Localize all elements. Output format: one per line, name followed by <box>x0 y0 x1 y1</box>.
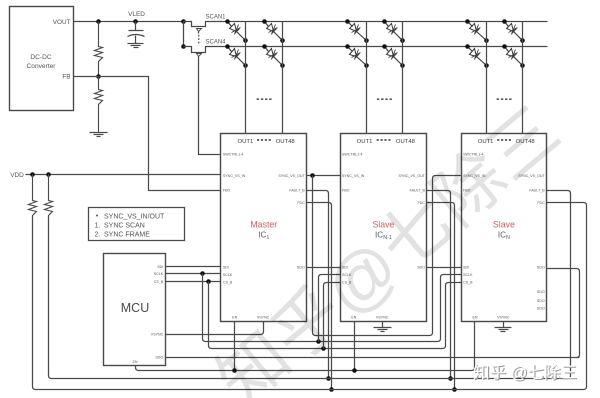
ellipsis between LED columns <box>497 98 499 100</box>
ground below C1 <box>128 43 144 45</box>
wire slave IC_N-1 SDO to slave IC_N SDI <box>427 267 462 269</box>
node VDD R4 tap <box>46 172 51 177</box>
svg-text:SCLK: SCLK <box>463 273 473 277</box>
slave IC U4 box <box>462 134 547 322</box>
wire EN bus <box>139 322 475 371</box>
wire row SCAN4 <box>212 46 548 48</box>
wire SCLK riser to slave IC_N-1 <box>319 275 341 342</box>
svg-text:VLED: VLED <box>128 11 145 18</box>
svg-text:Slave: Slave <box>493 219 515 229</box>
svg-text:EN: EN <box>133 360 138 364</box>
wire SDO return line <box>166 357 580 359</box>
svg-text:MCU: MCU <box>121 301 149 315</box>
wire R3 to FDC bus <box>33 217 36 390</box>
svg-text:2.: 2. <box>95 232 101 239</box>
svg-text:SYNC_VS_OUT: SYNC_VS_OUT <box>278 174 305 178</box>
node cathode D8 <box>400 63 405 68</box>
node anode D11 <box>502 19 507 24</box>
wire CS_B bus <box>212 283 462 349</box>
svg-text:SCAN4: SCAN4 <box>205 40 226 46</box>
wire slave IC_N FAULT_B drop <box>547 191 571 379</box>
node anode D4 <box>262 44 267 49</box>
node anode D12 <box>502 44 507 49</box>
wire LED column 2 <box>282 22 284 134</box>
wire slave IC_N-1 EN drop <box>354 322 356 371</box>
wire master SYNC_VS_OUT to slave SYNC_VS_IN <box>307 175 341 177</box>
node anode D8 <box>382 44 387 49</box>
resistor R3 (pull-up) <box>29 175 37 217</box>
svg-text:DC-DC: DC-DC <box>30 54 51 61</box>
transistor Q1 (SCAN1 PFET) <box>184 22 212 27</box>
node cathode D4 <box>280 63 285 68</box>
svg-text:知乎 @七除三: 知乎 @七除三 <box>473 363 577 382</box>
wire CS_B drop to bus <box>209 282 212 349</box>
LED D11 (row1 col6) <box>505 22 509 27</box>
wire master FAULT_B drop <box>307 191 329 379</box>
node anode D2 <box>225 44 230 49</box>
slave IC U4 OUT ellipsis <box>497 139 499 141</box>
node anode D1 <box>225 19 230 24</box>
wire SCLK drop to bus <box>203 274 206 342</box>
wire FAULT_B bus <box>52 378 568 380</box>
transistor Q2 (SCAN4 PFET) <box>184 47 212 53</box>
node anode D7 <box>382 19 387 24</box>
wire VDD rail <box>26 174 221 176</box>
svg-text:OUT48: OUT48 <box>396 139 416 145</box>
svg-text:Converter: Converter <box>27 63 57 70</box>
wire Q2 gate to master SWCTRL <box>199 57 221 155</box>
wire LED column 3 <box>366 22 368 134</box>
LED D6 (row2 col3) <box>348 47 353 52</box>
resistor R2 (divider bottom) <box>95 77 103 133</box>
node anode D6 <box>345 44 350 49</box>
svg-text:SYNC_VS_IN/OUT: SYNC_VS_IN/OUT <box>104 214 165 221</box>
svg-text:1.: 1. <box>95 223 101 230</box>
decor zhihu watermark text <box>473 363 578 383</box>
LED D7 (row1 col4) <box>385 22 389 27</box>
svg-text:SDO: SDO <box>537 265 545 269</box>
node cathode D6 <box>364 63 369 68</box>
wire row SCAN1 <box>212 21 548 23</box>
svg-text:SDO: SDO <box>537 290 545 294</box>
node VLED-FET branch <box>181 19 186 24</box>
svg-text:SDI: SDI <box>463 265 469 269</box>
ground below R2 <box>90 132 108 134</box>
wire FDC bus <box>36 389 584 391</box>
svg-text:SWCTRL1-4: SWCTRL1-4 <box>223 152 243 156</box>
svg-text:EN: EN <box>473 315 478 319</box>
ground slave IC_N VSYNC <box>495 327 512 329</box>
node FET2 source <box>181 44 186 49</box>
node VDD R3 tap <box>30 172 35 177</box>
node master FDC on bus <box>329 387 334 392</box>
svg-text:VSYNC: VSYNC <box>151 332 164 336</box>
node cathode D5 <box>364 38 369 43</box>
wire slave IC_N SDO return <box>547 269 580 358</box>
svg-text:VDD: VDD <box>10 172 24 179</box>
resistor R4 (pull-up) <box>45 175 53 217</box>
svg-text:SDO: SDO <box>537 306 545 310</box>
slave IC U3 OUT ellipsis <box>377 139 379 141</box>
wire Q1 gate stub dashed <box>198 32 200 34</box>
node cathode D7 <box>400 38 405 43</box>
node anode D5 <box>345 19 350 24</box>
LED D10 (row2 col5) <box>468 47 473 52</box>
LED D3 (row1 col2) <box>265 22 269 27</box>
node FB junction <box>96 74 101 79</box>
node cathode D10 <box>484 63 489 68</box>
ground slave IC_N-1 VSYNC <box>374 327 392 329</box>
wire slave IC_N FDC drop <box>547 203 587 390</box>
svg-text:SDO: SDO <box>537 299 545 303</box>
node cathode D11 <box>520 38 525 43</box>
MCU box <box>104 254 166 366</box>
wire master EN drop <box>234 322 236 371</box>
resistor R1 (VOUT-FB divider top) <box>95 22 103 77</box>
LED D4 (row2 col2) <box>265 47 269 52</box>
svg-text:SDO: SDO <box>155 356 163 360</box>
wire master FDC drop <box>307 203 332 390</box>
wire MCU CS_B to master CS_B <box>166 281 221 283</box>
wire LED column 5 <box>486 22 488 134</box>
svg-text:FDC: FDC <box>537 201 545 205</box>
svg-text:FBO: FBO <box>223 189 231 193</box>
node cathode D1 <box>243 38 248 43</box>
node cathode D9 <box>484 38 489 43</box>
svg-text:SDO: SDO <box>297 265 305 269</box>
node slave IC_N-1 FDC on bus <box>452 387 457 392</box>
svg-text:OUT48: OUT48 <box>276 139 296 145</box>
node SYNC_VS_OUT branch <box>310 173 315 178</box>
node SCLK bus to slave IC_N-1 <box>316 339 321 344</box>
svg-text:FB: FB <box>62 73 70 80</box>
svg-text:VSYNC: VSYNC <box>497 315 510 319</box>
svg-text:OUT1: OUT1 <box>238 139 254 145</box>
wire MCU VSYNC to master VSYNC <box>166 322 264 335</box>
wire MCU EN to EN bus <box>136 366 139 371</box>
svg-text:FDC: FDC <box>297 201 305 205</box>
DC-DC converter U1 box <box>10 7 74 111</box>
svg-text:SCAN1: SCAN1 <box>205 14 226 20</box>
master IC U2 box <box>221 134 307 322</box>
node SCLK junction <box>200 271 205 276</box>
svg-text:SDI: SDI <box>157 265 163 269</box>
svg-text:FAULT_B: FAULT_B <box>289 189 305 193</box>
wire slave IC_N-1 FDC drop <box>427 203 455 390</box>
wire FET source rail <box>183 22 185 47</box>
svg-text:SYNC FRAME: SYNC FRAME <box>104 232 150 239</box>
note box <box>89 208 185 241</box>
LED D5 (row1 col3) <box>348 22 353 27</box>
wire MCU SCLK to master SCLK <box>166 273 221 275</box>
wire R4 to FAULT_B bus <box>49 217 52 379</box>
node anode D3 <box>262 19 267 24</box>
wire LED column 1 <box>245 22 247 134</box>
wire slave IC_N-1 FAULT_B drop <box>427 191 451 379</box>
svg-text:FAULT_B: FAULT_B <box>529 189 545 193</box>
svg-text:SYNC SCAN: SYNC SCAN <box>104 223 145 230</box>
LED D1 (row1 col1) <box>228 22 232 27</box>
node slave IC_N-1 EN on bus <box>352 368 357 373</box>
wire FB to DC-DC <box>74 76 99 78</box>
svg-text:SYNC_VS_IN: SYNC_VS_IN <box>342 174 365 178</box>
node CS_B junction <box>206 279 211 284</box>
node cathode D2 <box>243 63 248 68</box>
LED D12 (row2 col6) <box>505 47 509 52</box>
svg-text:FBO: FBO <box>342 189 350 193</box>
ellipsis between LED columns <box>377 98 379 100</box>
LED D8 (row2 col4) <box>385 47 389 52</box>
svg-text:VSYNC: VSYNC <box>376 315 389 319</box>
svg-text:OUT1: OUT1 <box>357 139 373 145</box>
svg-text:SDI: SDI <box>223 265 229 269</box>
node VLED <box>133 19 138 24</box>
svg-text:EN: EN <box>232 315 237 319</box>
node cathode D3 <box>280 38 285 43</box>
wire LED column 6 <box>522 22 524 134</box>
wire VOUT rail <box>74 21 184 23</box>
wire slave IC_N-1 VSYNC stub <box>382 322 384 328</box>
wire master SDO to slave IC_N-1 SDI <box>307 267 341 269</box>
svg-text:CS_B: CS_B <box>463 281 473 285</box>
svg-text:SCLK: SCLK <box>154 272 164 276</box>
node anode D10 <box>465 44 470 49</box>
wire SYNC_VS branch down-across-up <box>313 176 462 336</box>
svg-text:SWCTRL1-4: SWCTRL1-4 <box>342 152 362 156</box>
node master EN on bus <box>232 368 237 373</box>
wire SCLK bus <box>206 275 462 342</box>
wire slave IC_N VSYNC stub <box>503 322 505 328</box>
svg-text:SCLK: SCLK <box>223 273 233 277</box>
node anode D9 <box>465 19 470 24</box>
svg-text:Master: Master <box>250 219 277 229</box>
node VOUT junction <box>96 19 101 24</box>
svg-text:CS_B: CS_B <box>223 281 233 285</box>
node cathode D12 <box>520 63 525 68</box>
node slave IC_N-1 FAULT_B on bus <box>448 376 453 381</box>
node CS_B bus to slave IC_N-1 <box>321 346 326 351</box>
svg-text:VOUT: VOUT <box>53 19 71 26</box>
node master FAULT_B on bus <box>326 376 331 381</box>
wire LED column 4 <box>402 22 404 134</box>
slave IC U3 box <box>341 134 427 322</box>
svg-text:SYNC_VS_IN: SYNC_VS_IN <box>223 174 246 178</box>
wire MCU SDI to master SDI <box>166 266 221 268</box>
svg-text:CS_B: CS_B <box>154 280 164 284</box>
wire FB to master FBO <box>99 77 221 191</box>
wire CS_B riser to slave IC_N-1 <box>324 283 341 349</box>
LED D9 (row1 col5) <box>468 22 473 27</box>
LED D2 (row2 col1) <box>228 47 232 52</box>
ellipsis between LED columns <box>257 98 259 100</box>
master IC U2 OUT ellipsis <box>257 139 259 141</box>
capacitor C1 at VLED <box>135 22 137 31</box>
